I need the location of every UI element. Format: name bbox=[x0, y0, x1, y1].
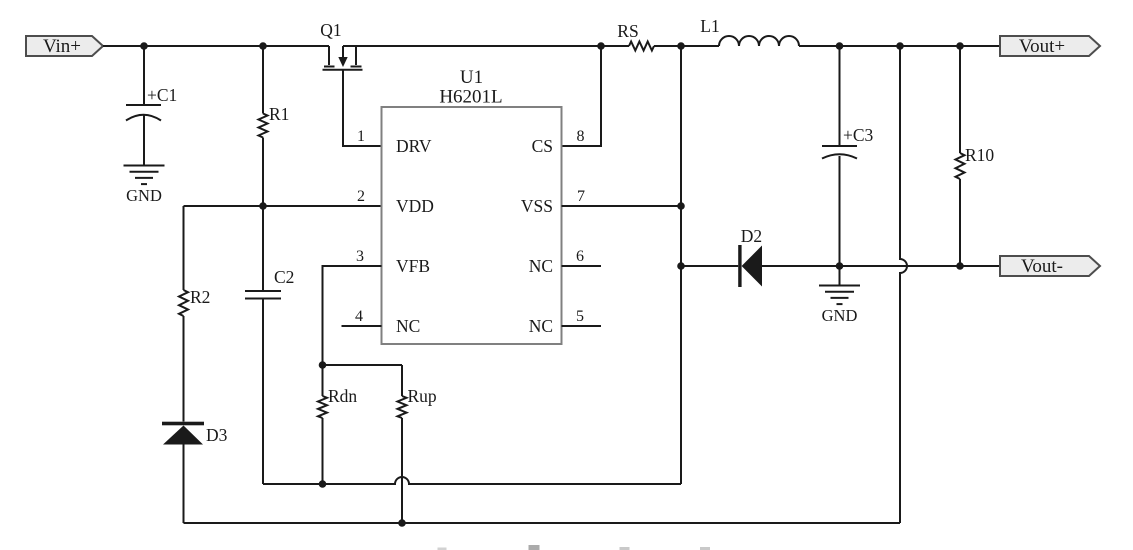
wire divider top connector bbox=[323, 364, 403, 366]
node D2 cathode junction bbox=[677, 262, 685, 270]
pin 6 NC bbox=[529, 248, 601, 276]
caption fragment (cut off at bottom edge) bbox=[438, 545, 711, 550]
port Vout- bbox=[1000, 256, 1100, 277]
svg-text:GND: GND bbox=[126, 186, 162, 205]
wire top rail Q1 drain to RS bbox=[343, 45, 629, 47]
svg-text:7: 7 bbox=[577, 188, 585, 205]
node VSS junction bbox=[677, 202, 685, 210]
svg-text:NC: NC bbox=[396, 316, 420, 336]
pin 8 CS bbox=[532, 128, 585, 156]
svg-text:VFB: VFB bbox=[396, 256, 430, 276]
node C3 bottom / GND junction bbox=[836, 262, 844, 270]
pin 4 NC bbox=[342, 308, 421, 336]
svg-text:3: 3 bbox=[356, 248, 364, 265]
svg-text:NC: NC bbox=[529, 256, 553, 276]
pin 5 NC bbox=[529, 308, 601, 336]
node switch junction bbox=[677, 42, 685, 50]
svg-text:6: 6 bbox=[576, 248, 584, 265]
pin 1 DRV bbox=[357, 128, 432, 156]
capacitor C1 bbox=[126, 46, 177, 166]
node C3 top junction bbox=[836, 42, 844, 50]
svg-text:4: 4 bbox=[355, 308, 363, 325]
wire top rail left (Vin+ to Q1 source) bbox=[103, 45, 329, 47]
transistor Q1 bbox=[320, 20, 362, 70]
svg-text:+C1: +C1 bbox=[147, 85, 177, 105]
ground GND (input) bbox=[124, 166, 165, 206]
diode D2 bbox=[681, 226, 1000, 287]
svg-text:Vout-: Vout- bbox=[1021, 256, 1063, 277]
svg-text:R10: R10 bbox=[965, 145, 994, 165]
svg-text:H6201L: H6201L bbox=[439, 87, 502, 108]
svg-text:DRV: DRV bbox=[396, 136, 432, 156]
svg-text:+C3: +C3 bbox=[843, 125, 874, 145]
wire Q1 gate to pin 1 DRV bbox=[343, 70, 382, 146]
svg-text:D3: D3 bbox=[206, 425, 228, 445]
pin 3 VFB bbox=[356, 248, 430, 276]
svg-text:Rdn: Rdn bbox=[328, 386, 357, 406]
svg-text:1: 1 bbox=[357, 128, 365, 145]
resistor R1 bbox=[259, 46, 290, 206]
wire mid return rail with hop over Rup bbox=[263, 477, 681, 484]
node Rup bottom junction bbox=[398, 519, 406, 527]
wire output feedback rail with hop over Vout- row bbox=[900, 46, 907, 523]
capacitor C3 bbox=[822, 46, 874, 266]
node input/R1 junction bbox=[259, 42, 267, 50]
node R10 top junction bbox=[956, 42, 964, 50]
svg-text:R2: R2 bbox=[190, 287, 210, 307]
capacitor C2 bbox=[245, 206, 294, 484]
svg-text:Rup: Rup bbox=[408, 386, 437, 406]
svg-text:Vout+: Vout+ bbox=[1019, 36, 1065, 57]
diode D3 bbox=[162, 422, 228, 523]
svg-text:RS: RS bbox=[617, 21, 638, 41]
node Vout- / R10 junction bbox=[956, 262, 964, 270]
svg-text:U1: U1 bbox=[460, 67, 483, 88]
svg-text:GND: GND bbox=[822, 306, 858, 325]
resistor Rup bbox=[398, 365, 437, 523]
wire L1 to Vout+ bbox=[799, 45, 1000, 47]
node divider top junction bbox=[319, 361, 327, 369]
node CS junction bbox=[597, 42, 605, 50]
resistor R10 bbox=[956, 46, 995, 266]
svg-text:L1: L1 bbox=[700, 16, 719, 36]
node input/C1 junction bbox=[140, 42, 148, 50]
node Rdn bottom junction bbox=[319, 480, 327, 488]
svg-text:Q1: Q1 bbox=[320, 20, 341, 40]
svg-text:C2: C2 bbox=[274, 267, 294, 287]
wire switch node vertical bbox=[680, 46, 682, 484]
svg-text:2: 2 bbox=[357, 188, 365, 205]
svg-text:R1: R1 bbox=[269, 104, 289, 124]
svg-text:D2: D2 bbox=[741, 226, 762, 246]
resistor Rdn bbox=[318, 365, 357, 484]
svg-text:NC: NC bbox=[529, 316, 553, 336]
resistor RS bbox=[617, 21, 654, 51]
svg-text:5: 5 bbox=[576, 308, 584, 325]
node feedback rail top junction bbox=[896, 42, 904, 50]
op-amp U1 H6201L body bbox=[382, 67, 562, 344]
pin 2 VDD bbox=[357, 188, 434, 216]
wire bottom rail bbox=[184, 522, 901, 524]
wire VFB pin 3 to divider bbox=[323, 266, 382, 365]
wire RS to L1 bbox=[654, 45, 719, 47]
wire to Vout- port bbox=[960, 265, 1000, 267]
pin 7 VSS bbox=[521, 188, 681, 216]
ground GND (output) bbox=[819, 266, 860, 325]
svg-text:VSS: VSS bbox=[521, 196, 553, 216]
wire CS pin 8 riser bbox=[562, 46, 602, 146]
svg-text:CS: CS bbox=[532, 136, 553, 156]
inductor L1 bbox=[700, 16, 799, 46]
node VDD/R1/C2 junction bbox=[259, 202, 267, 210]
resistor R2 bbox=[179, 206, 210, 422]
svg-text:VDD: VDD bbox=[396, 196, 434, 216]
port Vout+ bbox=[1000, 36, 1100, 57]
port Vin+ bbox=[26, 36, 103, 57]
svg-text:8: 8 bbox=[577, 128, 585, 145]
wire VDD pin 2 row bbox=[184, 205, 382, 207]
svg-text:Vin+: Vin+ bbox=[43, 36, 81, 57]
